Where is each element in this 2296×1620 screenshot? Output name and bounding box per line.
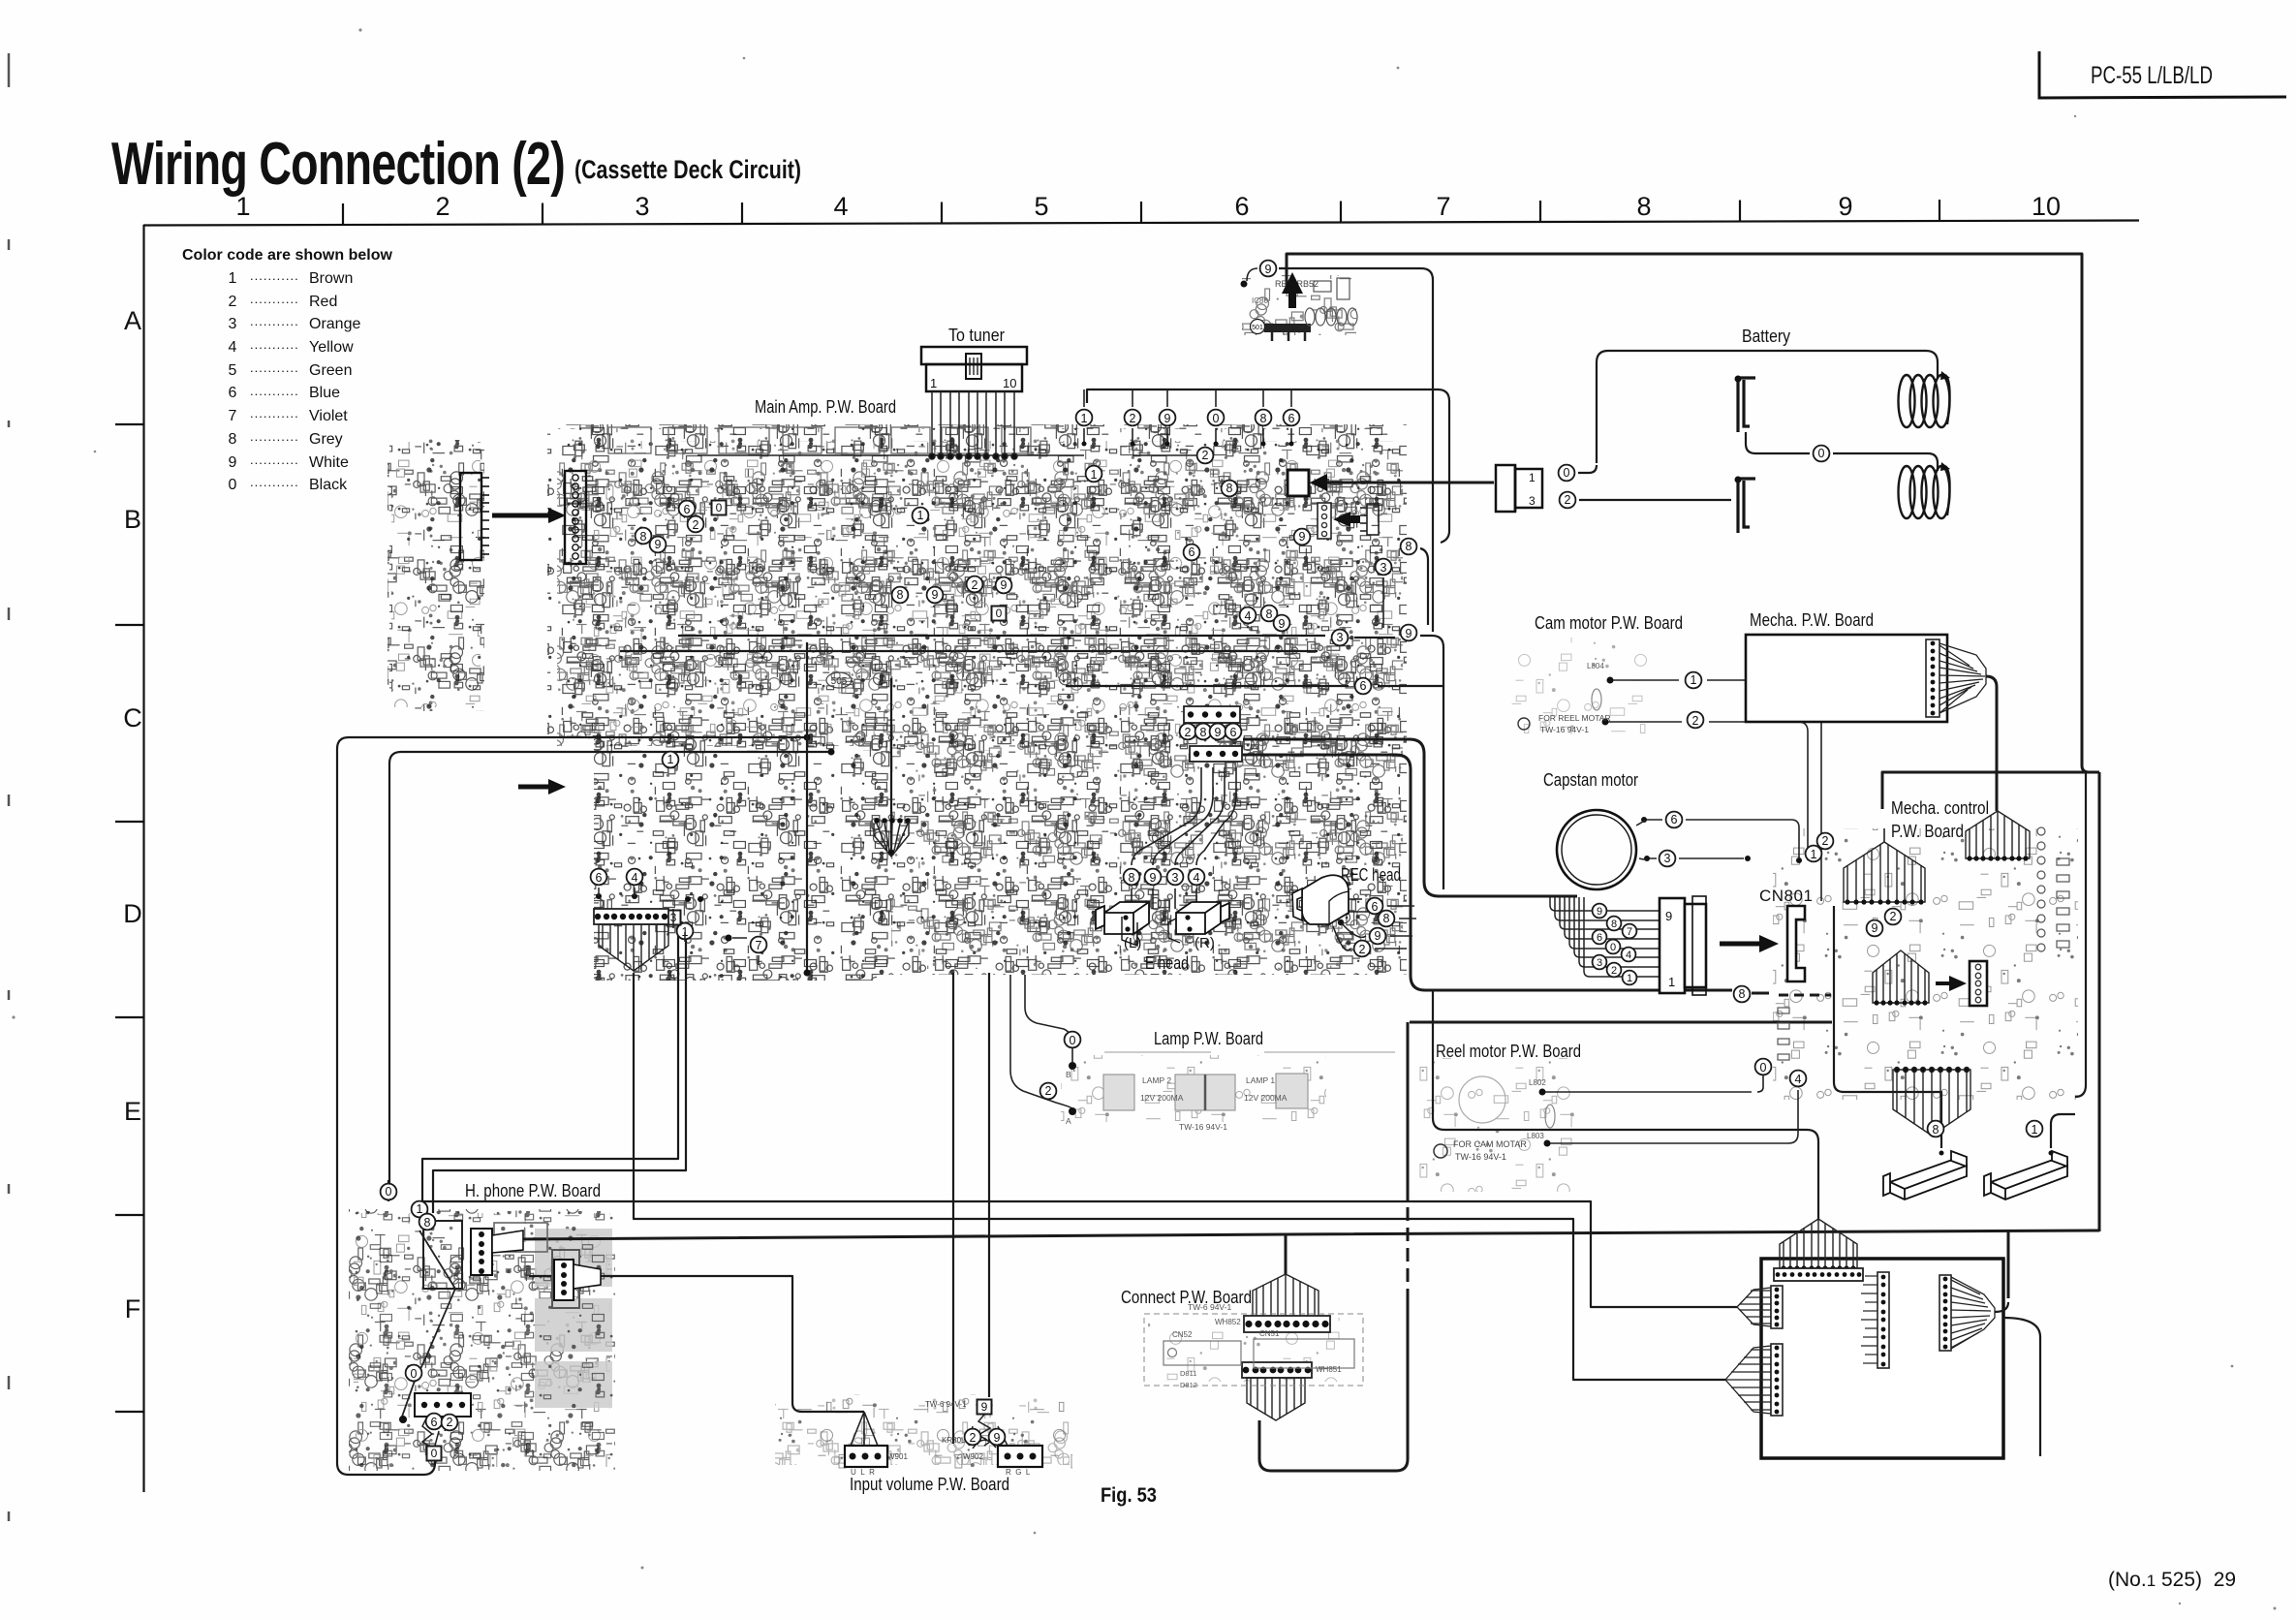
connect P.W. board texture — [1148, 1318, 1359, 1382]
callout 4 — [1790, 1071, 1807, 1087]
wire: cam motor to mecha control — [1610, 680, 1821, 901]
callout 8 — [1261, 606, 1278, 622]
svg-text:0: 0 — [1564, 466, 1570, 480]
svg-text:L804: L804 — [1587, 662, 1604, 670]
svg-text:6: 6 — [431, 1416, 438, 1429]
callout 8 — [1195, 724, 1212, 740]
connect board dashed outline — [1144, 1314, 1363, 1386]
svg-text:...........: ........... — [250, 268, 299, 283]
wire: reel motor pads to circled 0/4 — [1542, 1075, 1763, 1092]
svg-text:L802: L802 — [1529, 1078, 1546, 1087]
svg-text:Reel motor P.W. Board: Reel motor P.W. Board — [1436, 1042, 1581, 1061]
wires: drops to circled digits 1 2 9 0 8 6 — [1082, 389, 1294, 447]
svg-text:6: 6 — [1288, 412, 1295, 425]
svg-text:8: 8 — [1266, 607, 1273, 621]
battery contacts — [1738, 378, 1755, 533]
svg-text:F: F — [125, 1294, 141, 1324]
mecha control fan F3 — [1873, 950, 1929, 1006]
svg-text:9: 9 — [1215, 726, 1222, 739]
svg-text:2: 2 — [1202, 449, 1209, 462]
callout 2 — [1885, 909, 1902, 925]
LCD right strip B with fan right — [1939, 1275, 1951, 1351]
svg-text:2: 2 — [1611, 965, 1617, 977]
4-pin connector with arrow — [1318, 503, 1331, 539]
main board D-row connector and fan — [594, 909, 668, 924]
wire: capstan motor leads — [1644, 820, 1799, 857]
svg-text:LAMP 1: LAMP 1 — [1246, 1075, 1275, 1085]
svg-text:U L R: U L R — [851, 1468, 875, 1477]
capstan motor — [1557, 810, 1636, 889]
svg-text:2: 2 — [435, 192, 450, 221]
svg-text:Connect P.W. Board: Connect P.W. Board — [1121, 1288, 1252, 1307]
svg-text:8: 8 — [1611, 919, 1617, 930]
callout 0 — [1065, 1032, 1081, 1048]
svg-text:2: 2 — [1185, 726, 1192, 739]
svg-text:9: 9 — [981, 1400, 988, 1414]
callout 9 — [927, 587, 944, 604]
fuse assembly (IC801 RB53RB52) — [1241, 268, 1358, 341]
(505) mark — [826, 672, 852, 688]
H phone W801 connector — [415, 1393, 471, 1417]
svg-text:0: 0 — [1760, 1061, 1767, 1075]
svg-text:9: 9 — [1838, 192, 1852, 221]
wire: to circled 8 pad on H.phone — [433, 932, 686, 1213]
fuse assembly texture — [1242, 275, 1356, 335]
comb connector right of 4-pin — [1360, 504, 1379, 535]
svg-text:8: 8 — [424, 1216, 431, 1230]
svg-text:9: 9 — [655, 538, 662, 551]
svg-text:1: 1 — [229, 270, 237, 287]
svg-text:0: 0 — [386, 1185, 392, 1199]
svg-text:4: 4 — [1194, 871, 1200, 885]
reel motor board details — [1434, 1144, 1447, 1158]
callout 9 — [989, 1429, 1006, 1446]
svg-text:LAMP 2: LAMP 2 — [1142, 1075, 1171, 1085]
main amp P.W. board texture — [547, 424, 1407, 981]
svg-text:2: 2 — [1822, 834, 1829, 848]
svg-text:...........: ........... — [250, 429, 299, 444]
CN801 bundle connector — [1660, 896, 1706, 995]
callout 8 — [1401, 539, 1417, 555]
svg-text:6: 6 — [596, 871, 603, 885]
svg-text:0: 0 — [1213, 412, 1220, 425]
svg-text:9: 9 — [994, 1431, 1001, 1445]
page edge scan marks — [8, 53, 11, 1521]
wire: thick harness to CN801 top — [1243, 739, 1577, 896]
callout 8 — [892, 587, 909, 604]
svg-text:Brown: Brown — [309, 270, 353, 287]
svg-text:3: 3 — [1172, 871, 1179, 885]
mecha control fan F1 — [1844, 842, 1925, 905]
wire: CN801 right vertical to latch connectors — [1834, 906, 1941, 1148]
callout 3 — [1660, 851, 1676, 867]
svg-text:...........: ........... — [250, 452, 299, 467]
svg-text:Battery: Battery — [1742, 327, 1790, 346]
svg-text:Grey: Grey — [309, 431, 343, 448]
svg-text:7: 7 — [1436, 192, 1450, 221]
svg-text:9: 9 — [1150, 871, 1157, 885]
cam motor board details — [1518, 718, 1530, 730]
svg-text:2: 2 — [229, 294, 237, 310]
wire: input volume verticals — [952, 973, 954, 1444]
svg-text:(No.1 525) 29: (No.1 525) 29 — [2108, 1569, 2236, 1591]
callout 6 — [591, 869, 607, 886]
svg-text:Lamp P.W. Board: Lamp P.W. Board — [1154, 1029, 1263, 1048]
svg-text:3: 3 — [1529, 494, 1536, 508]
callout 1 — [1806, 846, 1822, 862]
svg-text:Mecha. P.W. Board: Mecha. P.W. Board — [1750, 610, 1874, 630]
callout 0 — [1559, 465, 1575, 482]
svg-text:Input volume P.W. Board: Input volume P.W. Board — [850, 1475, 1009, 1494]
svg-text:9: 9 — [1299, 530, 1306, 544]
svg-text:9: 9 — [1001, 578, 1008, 592]
callout 1 — [913, 508, 929, 524]
lamp board parts — [1103, 1074, 1308, 1110]
callout 1 — [2027, 1121, 2043, 1137]
left frame border with row ticks — [115, 225, 144, 1492]
callout 2 — [1817, 833, 1834, 850]
callout 1 — [677, 923, 694, 940]
callout 4 — [1240, 607, 1257, 624]
svg-text:PC-55 L/LB/LD: PC-55 L/LB/LD — [2091, 62, 2213, 89]
5-hole connector on mecha control — [1970, 961, 1987, 1006]
svg-text:10: 10 — [1003, 376, 1016, 390]
svg-text:0: 0 — [229, 477, 237, 493]
svg-text:4: 4 — [229, 339, 237, 356]
svg-text:Red: Red — [309, 294, 337, 310]
svg-text:5: 5 — [1034, 192, 1048, 221]
svg-text:...........: ........... — [250, 406, 299, 421]
callout 0 — [1814, 446, 1830, 462]
callout 0 — [406, 1365, 422, 1382]
svg-text:TW-16 94V-1: TW-16 94V-1 — [1455, 1152, 1506, 1162]
callout 3 — [1376, 559, 1392, 576]
svg-text:2: 2 — [1359, 943, 1366, 956]
callout 8 — [1256, 410, 1272, 426]
svg-text:1: 1 — [1811, 848, 1817, 861]
svg-text:FOR REEL MOTAR: FOR REEL MOTAR — [1538, 713, 1611, 723]
svg-text:2: 2 — [1890, 910, 1897, 923]
svg-text:9: 9 — [1406, 627, 1412, 640]
svg-text:2: 2 — [693, 518, 699, 532]
svg-text:A: A — [124, 306, 141, 335]
svg-text:4: 4 — [1795, 1073, 1802, 1086]
svg-text:To tuner: To tuner — [948, 326, 1005, 345]
svg-text:(R): (R) — [1195, 935, 1215, 951]
svg-text:B: B — [1066, 1070, 1071, 1079]
svg-text:9: 9 — [1265, 263, 1272, 276]
svg-text:Mecha. control: Mecha. control — [1891, 798, 1989, 818]
callout 0 — [1755, 1059, 1772, 1075]
svg-text:R G L: R G L — [1006, 1468, 1031, 1477]
svg-text:8: 8 — [1933, 1123, 1939, 1137]
callout 3 — [1167, 869, 1184, 886]
callout 2 — [1180, 724, 1196, 740]
svg-text:TW-6 94V-1: TW-6 94V-1 — [925, 1400, 967, 1409]
svg-text:6: 6 — [684, 503, 691, 516]
svg-text:9: 9 — [1164, 412, 1171, 425]
wire: main board internal buses — [678, 636, 1443, 889]
LCD left fan 1 — [1737, 1288, 1771, 1326]
callout 2 — [1688, 712, 1704, 729]
callout 2 — [1197, 448, 1214, 464]
svg-text:501: 501 — [1252, 325, 1263, 331]
LCD top fan — [1780, 1219, 1857, 1271]
svg-text:Wiring Connection (2): Wiring Connection (2) — [111, 131, 565, 198]
mecha board fan out — [1939, 643, 1986, 713]
svg-text:6: 6 — [1671, 813, 1678, 826]
svg-text:0: 0 — [1070, 1034, 1076, 1047]
svg-text:6: 6 — [1234, 192, 1249, 221]
svg-text:D812: D812 — [1180, 1381, 1197, 1389]
LCD P.W. board — [1761, 1259, 2003, 1458]
callout 9 — [1160, 410, 1176, 426]
boxed callouts — [712, 501, 727, 515]
lamp P.W. board texture — [1061, 1055, 1326, 1122]
svg-text:8: 8 — [1200, 726, 1207, 739]
svg-text:1: 1 — [930, 376, 937, 390]
callout 9 — [1370, 928, 1386, 945]
svg-text:3: 3 — [1337, 631, 1344, 644]
svg-text:1: 1 — [235, 192, 250, 221]
svg-text:2: 2 — [447, 1416, 453, 1429]
latch connector 1 — [1883, 1151, 1967, 1199]
callout 2 — [1354, 941, 1371, 957]
svg-text:6: 6 — [1372, 900, 1379, 914]
E head (R) connector — [1168, 902, 1229, 943]
wire: top bus from fuse to right side — [1287, 254, 2082, 765]
svg-text:1: 1 — [1091, 468, 1098, 482]
arrow to CN801 — [1720, 942, 1759, 947]
svg-text:W902: W902 — [963, 1452, 983, 1461]
svg-text:White: White — [309, 454, 349, 471]
callout 1 — [1686, 672, 1702, 689]
head connector pin rows on main board — [1184, 706, 1240, 723]
svg-text:B: B — [124, 505, 141, 534]
svg-text:3: 3 — [1664, 852, 1671, 865]
callout 2 — [688, 516, 704, 533]
callout 0 — [381, 1184, 397, 1200]
svg-text:0: 0 — [996, 607, 1003, 620]
svg-text:WH852: WH852 — [1215, 1318, 1241, 1326]
svg-text:9: 9 — [1375, 929, 1381, 943]
svg-text:A: A — [1066, 1116, 1071, 1126]
callout 6 — [426, 1414, 443, 1430]
svg-text:FOR CAM MOTAR: FOR CAM MOTAR — [1453, 1139, 1527, 1149]
REC head — [1292, 875, 1349, 924]
callout 4 — [1189, 869, 1205, 886]
arrow to main board — [492, 514, 548, 518]
wire: H.phone to input volume connector — [529, 1276, 864, 1412]
svg-text:...........: ........... — [250, 384, 299, 398]
callout 2 — [967, 576, 983, 593]
main board 5-pin hanging comb — [874, 818, 911, 857]
svg-text:TW-16 94V-1: TW-16 94V-1 — [1540, 725, 1589, 734]
left aux board connector (comb) — [460, 473, 489, 560]
callout 2 — [965, 1429, 981, 1446]
svg-text:4: 4 — [833, 192, 848, 221]
svg-text:P.W. Board: P.W. Board — [1891, 822, 1964, 841]
wire: long horizontal from main board fan to LCD fan2 — [634, 973, 1725, 1380]
callout 9 — [1260, 261, 1277, 277]
callout 6 — [1367, 898, 1383, 915]
svg-text:...........: ........... — [250, 314, 299, 328]
callout 6 — [1226, 724, 1242, 740]
callout 8 — [1928, 1121, 1944, 1137]
callout 2 — [1560, 492, 1576, 509]
wire: battery connector leads — [1578, 465, 1597, 473]
svg-text:Orange: Orange — [309, 316, 360, 332]
callout 8 — [1222, 481, 1238, 497]
svg-text:3: 3 — [1381, 561, 1387, 575]
H phone zigzag + wires to 6/2 circles — [422, 1417, 450, 1447]
svg-text:6: 6 — [1230, 726, 1237, 739]
wire: white(9) bus from fuse area down right column — [1279, 268, 1433, 632]
svg-text:12V 200MA: 12V 200MA — [1244, 1093, 1288, 1103]
svg-text:D: D — [123, 899, 142, 928]
callout 4 — [627, 869, 643, 886]
tuner connector wires — [929, 391, 1017, 459]
svg-text:4: 4 — [632, 871, 638, 885]
svg-text:H. phone P.W. Board: H. phone P.W. Board — [465, 1181, 601, 1200]
wire: battery middle link — [1746, 432, 1938, 471]
callout 1 — [412, 1201, 428, 1218]
callout 9 — [1274, 615, 1290, 632]
svg-text:8: 8 — [1406, 540, 1412, 553]
wire: thick lead from fuse box to battery connector — [1325, 482, 1494, 484]
wire: circled-digit bus over main board — [1087, 389, 1449, 543]
mecha control P.W. board texture — [1773, 828, 2078, 1100]
H phone board parts — [423, 1221, 579, 1308]
svg-text:1: 1 — [917, 509, 924, 522]
reel motor P.W. board texture — [1419, 1058, 1574, 1192]
svg-text:8: 8 — [1260, 412, 1267, 425]
callout 6 — [679, 501, 696, 517]
svg-text:CN51: CN51 — [1259, 1329, 1280, 1338]
H. phone P.W. board texture — [349, 1209, 615, 1471]
wire: drop from harness to LCD top fan — [1433, 990, 1818, 1219]
svg-text:Green: Green — [309, 362, 352, 379]
callout 6 — [1355, 678, 1372, 695]
svg-text:...........: ........... — [250, 475, 299, 489]
svg-text:12V 200MA: 12V 200MA — [1140, 1093, 1184, 1103]
svg-text:TW-6 94V-1: TW-6 94V-1 — [1188, 1302, 1231, 1312]
svg-text:CN801: CN801 — [1759, 887, 1813, 905]
callout 2 — [442, 1415, 458, 1431]
callout 7 — [751, 937, 767, 953]
callout 1 — [1086, 466, 1102, 483]
svg-text:0: 0 — [411, 1367, 418, 1381]
svg-text:9: 9 — [1872, 921, 1878, 935]
svg-text:Yellow: Yellow — [309, 339, 354, 356]
main board edge connector (holes) — [565, 471, 586, 564]
callout 9 — [1867, 920, 1883, 937]
mecha control fan F4 (down) — [1893, 1070, 1970, 1136]
svg-text:REC head: REC head — [1341, 865, 1401, 885]
callout 8 — [636, 528, 652, 545]
callout 6 — [1284, 410, 1300, 426]
H phone connector pads — [471, 1229, 523, 1275]
latch connector 2 — [1984, 1151, 2067, 1199]
svg-text:8: 8 — [1739, 987, 1746, 1001]
svg-text:2: 2 — [1692, 714, 1699, 728]
wires: CN801 bundle gather — [1550, 897, 1660, 977]
cam motor P.W. board texture — [1511, 638, 1652, 734]
ruler with column numbers — [143, 200, 2139, 226]
input volume parts — [845, 1446, 887, 1467]
svg-text:E head: E head — [1145, 953, 1189, 973]
arrow mid-left on main board — [518, 785, 548, 790]
callout 8 — [1379, 911, 1395, 927]
svg-text:2: 2 — [1130, 412, 1136, 425]
CN801 bundle callouts — [1593, 904, 1607, 919]
svg-text:8: 8 — [229, 431, 237, 448]
svg-text:7: 7 — [229, 408, 237, 424]
input volume P.W. board texture — [772, 1394, 1072, 1469]
callout 6 — [1666, 812, 1683, 828]
callout 9 — [1294, 529, 1311, 545]
svg-text:Main Amp. P.W. Board: Main Amp. P.W. Board — [755, 397, 896, 417]
svg-text:1: 1 — [1691, 673, 1697, 687]
svg-text:9: 9 — [932, 588, 939, 602]
callout 1 — [663, 752, 679, 768]
svg-text:7: 7 — [756, 939, 762, 952]
svg-text:3: 3 — [229, 316, 237, 332]
svg-text:8: 8 — [897, 588, 904, 602]
wire: long bottom horizontal to LCD right side — [511, 1231, 2099, 1239]
svg-text:Cam motor P.W. Board: Cam motor P.W. Board — [1535, 613, 1683, 633]
wire: connect board loop — [1407, 1022, 1410, 1187]
left aux P.W. board texture — [388, 438, 484, 711]
svg-text:...........: ........... — [250, 337, 299, 352]
wire: battery loop — [1597, 351, 1938, 463]
svg-text:6: 6 — [1189, 545, 1195, 559]
LCD left fan 2 — [1725, 1346, 1771, 1414]
svg-text:2: 2 — [970, 1431, 977, 1445]
svg-text:5: 5 — [229, 362, 237, 379]
model number tab PC-55 L/LB/LD — [2039, 51, 2286, 98]
svg-text:L803: L803 — [1527, 1132, 1544, 1140]
callout 8 — [1124, 869, 1140, 886]
E head (L) connector — [1096, 902, 1149, 946]
svg-text:Violet: Violet — [309, 408, 348, 424]
svg-text:1: 1 — [417, 1202, 423, 1216]
svg-text:1: 1 — [1081, 412, 1088, 425]
wires: E head leads — [1132, 767, 1236, 909]
svg-text:Capstan motor: Capstan motor — [1543, 770, 1638, 790]
svg-text:0: 0 — [431, 1447, 438, 1460]
svg-text:0: 0 — [716, 501, 723, 514]
fuse box on main board (battery feed) — [1288, 470, 1309, 496]
svg-text:E: E — [124, 1097, 141, 1126]
svg-text:W901: W901 — [887, 1452, 908, 1461]
connect board top fan — [1253, 1274, 1319, 1321]
callout 9 — [1401, 625, 1417, 641]
tuner connector — [921, 347, 1027, 391]
svg-text:8: 8 — [1636, 192, 1651, 221]
connect board bottom fan — [1242, 1362, 1312, 1378]
wires: REC head leads — [1333, 897, 1416, 950]
svg-text:1: 1 — [1627, 973, 1632, 984]
svg-text:3: 3 — [635, 192, 649, 221]
svg-text:9: 9 — [1279, 617, 1286, 631]
svg-text:Color code are shown below: Color code are shown below — [182, 247, 392, 264]
LCD right strip A — [1877, 1272, 1889, 1368]
svg-text:0: 0 — [1818, 447, 1825, 460]
CN801 socket bracket — [1787, 906, 1805, 981]
callout 9 — [996, 577, 1012, 594]
svg-text:WH851: WH851 — [1316, 1365, 1342, 1374]
